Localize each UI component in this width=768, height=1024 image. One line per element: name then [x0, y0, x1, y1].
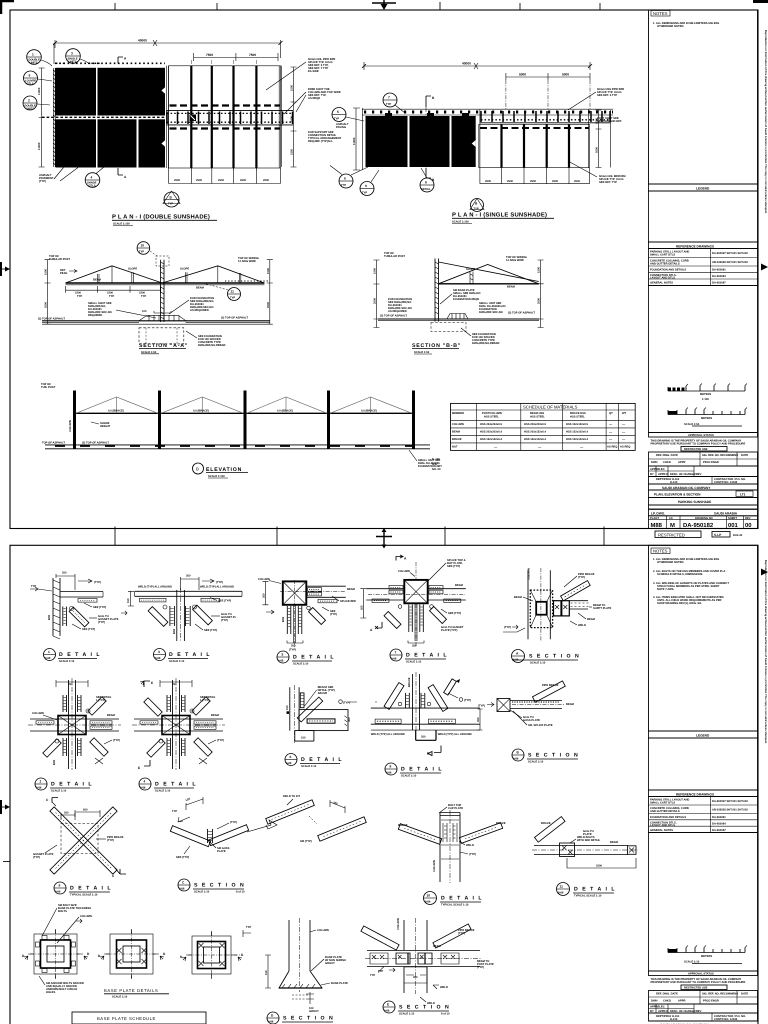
- svg-text:PROPRIETARY USE PURSUANT TO CO: PROPRIETARY USE PURSUANT TO COMPANY POLI…: [651, 981, 746, 984]
- svg-text:SCALE 1:10: SCALE 1:10: [401, 774, 417, 777]
- svg-text:BEAM: BEAM: [507, 286, 516, 289]
- plan1 dotted line above block: [55, 62, 165, 64]
- svg-text:SIG. REF. NO. RECOMMEND: SIG. REF. NO. RECOMMEND: [702, 993, 738, 996]
- svg-text:M: M: [670, 522, 675, 529]
- svg-text:COLUMN: COLUMN: [452, 423, 464, 426]
- svg-text:8: 8: [425, 181, 427, 185]
- reference drawings table: [649, 249, 758, 286]
- svg-text:HSS 152x102x6.4: HSS 152x102x6.4: [566, 431, 588, 434]
- secA truss top chords: [66, 266, 265, 283]
- plan2 callout circle 7: [383, 93, 405, 113]
- dept row: [649, 477, 758, 485]
- svg-text:DTLS: DTLS: [89, 184, 96, 187]
- svg-text:S E C T I O N: S E C T I O N: [283, 1016, 334, 1022]
- svg-text:REV: REV: [745, 517, 751, 520]
- detail 1 leader texts: [72, 603, 119, 631]
- svg-text:COLUMN: COLUMN: [69, 420, 72, 432]
- detail 8 drawing: [371, 672, 483, 756]
- elev column rotated label: [69, 420, 72, 432]
- section A label: [512, 650, 581, 665]
- plan1 circle3 dotted leader: [56, 62, 101, 64]
- svg-text:TYP: TYP: [334, 118, 339, 121]
- svg-text:ABOVE: ABOVE: [318, 692, 328, 695]
- svg-text:PROJ ENGR: PROJ ENGR: [703, 1000, 719, 1003]
- elev beam line: [73, 412, 415, 414]
- svg-text:SMALL CART DTLS: SMALL CART DTLS: [650, 253, 675, 256]
- sheet 2 border: [10, 545, 758, 1024]
- svg-text:HSS 203x152x6.4: HSS 203x152x6.4: [524, 431, 546, 434]
- svg-text:D E T A I L: D E T A I L: [169, 652, 211, 658]
- svg-text:(TYP): (TYP): [458, 932, 465, 935]
- section E label: [383, 1001, 450, 1015]
- svg-text:BASE PLATE SCHEDULE: BASE PLATE SCHEDULE: [97, 1016, 156, 1021]
- svg-text:CONTR NO. 12345: CONTR NO. 12345: [714, 481, 738, 484]
- registration mark top-center: [372, 0, 396, 10]
- svg-text:D E T A I L: D E T A I L: [59, 652, 101, 658]
- svg-text:SEAM: SEAM: [433, 945, 442, 948]
- svg-text:SIG. REF. NO. RECOMMEND: SIG. REF. NO. RECOMMEND: [702, 454, 738, 457]
- svg-text:WELD: WELD: [440, 986, 448, 989]
- plan1 callout circle 2: [23, 96, 50, 110]
- by/appr rows: [649, 466, 758, 477]
- svg-text:REF. DWG. DATE: REF. DWG. DATE: [656, 993, 678, 996]
- svg-text:COLUMN: COLUMN: [317, 929, 329, 932]
- secB ground line: [378, 319, 539, 321]
- detail 3 label: [154, 649, 212, 663]
- svg-text:COLUMN: COLUMN: [433, 860, 436, 872]
- svg-text:AS REQD: AS REQD: [308, 97, 320, 100]
- elev top-of-column label: [41, 383, 56, 389]
- detail 6 drawing: [286, 685, 377, 743]
- secA callout circle 10: [137, 242, 169, 266]
- svg-text:8-88: 8-88: [286, 762, 292, 765]
- svg-text:GROUT: GROUT: [309, 1010, 319, 1013]
- svg-text:2500: 2500: [45, 302, 48, 308]
- top edge ticks: [115, 2, 600, 10]
- svg-text:SAUDI ARABIAN OIL COMPANY: SAUDI ARABIAN OIL COMPANY: [662, 486, 711, 490]
- secA slope labels: [93, 268, 205, 290]
- svg-text:PROJ ENGR: PROJ ENGR: [703, 461, 719, 464]
- svg-text:GROUT: GROUT: [325, 962, 335, 965]
- svg-text:HOLES: HOLES: [46, 991, 55, 994]
- svg-text:HSS STEEL: HSS STEEL: [530, 416, 545, 419]
- svg-text:11: 11: [560, 885, 564, 889]
- svg-text:6: 6: [290, 755, 292, 759]
- secA pedestal: [139, 310, 186, 321]
- detail 4 label: [139, 778, 197, 792]
- svg-text:APPROVAL STATUS: APPROVAL STATUS: [688, 434, 714, 437]
- svg-text:7500: 7500: [249, 53, 256, 57]
- approvals band: [649, 433, 758, 438]
- svg-text:RESTRICTED USE: RESTRICTED USE: [684, 448, 708, 451]
- plan1 callout circle 3: [66, 49, 89, 64]
- svg-text:2: 2: [40, 780, 42, 784]
- svg-text:5000: 5000: [562, 73, 569, 77]
- svg-text:PARKING SUNSHADE: PARKING SUNSHADE: [678, 500, 711, 504]
- svg-text:SCALE 1:10: SCALE 1:10: [169, 660, 185, 663]
- scale bar 1: [668, 384, 747, 402]
- svg-text:TUBULAR POST: TUBULAR POST: [49, 258, 70, 261]
- svg-text:DATE: DATE: [741, 993, 748, 996]
- plan1 section flag A top: [118, 57, 127, 64]
- plan2 top beam dotted row: [362, 109, 613, 115]
- svg-text:EA SIDE: EA SIDE: [308, 70, 319, 73]
- svg-text:250: 250: [186, 575, 191, 578]
- detail 3 leader texts: [173, 598, 237, 635]
- svg-text:00: 00: [745, 522, 752, 529]
- plan1 callout circle 1: [27, 50, 52, 66]
- svg-text:(TYP): (TYP): [469, 853, 476, 856]
- notes text s2: [653, 558, 729, 605]
- plan1 bottom dims 2500: [169, 168, 281, 184]
- svg-text:BY: BY: [650, 473, 654, 476]
- svg-text:1 (TYP): 1 (TYP): [200, 699, 209, 702]
- signature rows s2: [649, 991, 758, 1005]
- svg-text:2500: 2500: [530, 180, 536, 183]
- svg-text:1500: 1500: [267, 268, 270, 274]
- svg-text:SHOP DRAWING REV(1), DWG. SH.: SHOP DRAWING REV(1), DWG. SH.: [657, 602, 702, 605]
- svg-text:SPLICE BPE: SPLICE BPE: [340, 600, 356, 603]
- elev eave height label: [91, 422, 111, 428]
- plan1 left dim line: [38, 43, 54, 167]
- svg-text:4: 4: [91, 176, 93, 180]
- svg-text:AB-036558 SHT.001 SHT.002: AB-036558 SHT.001 SHT.002: [712, 261, 748, 264]
- svg-text:GUSS PLATE: GUSS PLATE: [523, 719, 540, 722]
- svg-text:350: 350: [263, 593, 266, 598]
- plan1 left post column strip: [53, 68, 55, 167]
- svg-text:BEAM: BEAM: [514, 596, 523, 599]
- svg-text:(TYP): (TYP): [230, 821, 237, 824]
- svg-text:(TYP): (TYP): [216, 581, 223, 584]
- detail 3 drawing: [121, 575, 242, 643]
- svg-text:9: 9: [59, 884, 61, 888]
- svg-text:SEE DET. TYP: SEE DET. TYP: [599, 181, 617, 184]
- svg-text:3: 3: [71, 52, 73, 56]
- svg-text:OTHERWISE NOTED.: OTHERWISE NOTED.: [657, 561, 684, 564]
- section B label: [512, 749, 579, 763]
- svg-text:2200: 2200: [139, 292, 145, 295]
- svg-text:PROPRIETARY USE PURSUANT TO CO: PROPRIETARY USE PURSUANT TO COMPANY POLI…: [651, 443, 746, 446]
- svg-text:DA-950182: DA-950182: [683, 522, 714, 529]
- svg-text:UNITS: UNITS: [69, 60, 77, 63]
- plan2 top dimension line 40000: [362, 62, 592, 71]
- svg-text:D E T A I L: D E T A I L: [70, 886, 112, 892]
- svg-text:SCALE 1:50: SCALE 1:50: [684, 423, 700, 426]
- secA asphalt labels: [38, 317, 248, 321]
- svg-text:11000: 11000: [353, 137, 356, 145]
- svg-text:8-88: 8-88: [425, 901, 431, 904]
- svg-text:2: 2: [28, 99, 30, 103]
- plan1 right annotation text 2: [284, 88, 341, 114]
- svg-text:SLOPE: SLOPE: [466, 268, 475, 271]
- svg-text:300: 300: [348, 717, 351, 722]
- svg-text:2500: 2500: [507, 180, 513, 183]
- svg-text:SEE (TYP): SEE (TYP): [447, 565, 460, 568]
- plan1 black panel lower row: [56, 119, 166, 167]
- svg-text:TYP: TYP: [246, 926, 251, 929]
- svg-text:1500: 1500: [291, 85, 294, 91]
- right edge arrow sheet1: [761, 264, 768, 271]
- svg-text:(TYP): (TYP): [39, 180, 46, 183]
- secA left text block: [88, 302, 156, 318]
- plan2 title: [452, 212, 554, 224]
- svg-text:AS REQ: AS REQ: [607, 446, 617, 449]
- svg-text:2500: 2500: [538, 298, 541, 304]
- svg-text:TYP: TYP: [172, 810, 177, 813]
- svg-text:(2) TOP OF ASPHALT: (2) TOP OF ASPHALT: [38, 317, 65, 320]
- svg-text:OTHERWISE NOTED.: OTHERWISE NOTED.: [657, 25, 684, 28]
- svg-text:BOLTS: BOLTS: [58, 910, 67, 913]
- svg-text:12 AWG WIRE: 12 AWG WIRE: [238, 260, 256, 263]
- svg-text:11000: 11000: [38, 142, 41, 150]
- section E drawing: [361, 918, 494, 1005]
- svg-text:001: 001: [728, 522, 739, 529]
- svg-text:APPR.D: APPR.D: [658, 473, 668, 476]
- svg-text:1500: 1500: [291, 116, 294, 122]
- svg-text:4.0 (BRACE): 4.0 (BRACE): [193, 410, 209, 413]
- svg-text:DA-950084: DA-950084: [712, 823, 726, 826]
- svg-text:5: 5: [282, 653, 284, 657]
- svg-text:P L A N - I (DOUBLE SUNSHADE): P L A N - I (DOUBLE SUNSHADE): [112, 214, 210, 221]
- plan1 callout circle 4: [85, 167, 104, 187]
- approvals band s2: [649, 971, 758, 976]
- svg-text:APPROVAL STATUS: APPROVAL STATUS: [688, 973, 714, 976]
- secB baseplate: [447, 314, 468, 320]
- svg-text:10: 10: [427, 894, 431, 898]
- svg-text:PLAN, ELEVATION & SECTION: PLAN, ELEVATION & SECTION: [654, 493, 701, 497]
- secB asphalt labels: [380, 312, 535, 318]
- svg-text:BRACE: BRACE: [541, 822, 551, 825]
- svg-text:PAVING: PAVING: [336, 126, 346, 129]
- secB beam label: [507, 286, 516, 289]
- svg-text:40000: 40000: [138, 39, 147, 43]
- plan1 callout circle 9: [24, 71, 53, 85]
- secB below-foundation text: [461, 328, 500, 345]
- svg-text:SLOPE: SLOPE: [128, 268, 137, 271]
- secA below-foundation text: [186, 331, 226, 347]
- svg-text:METERS: METERS: [701, 955, 712, 958]
- section D label: [267, 1012, 334, 1024]
- section B drawing: [478, 681, 575, 727]
- secB right dim line: [538, 260, 544, 328]
- svg-text:LEGEND: LEGEND: [696, 186, 710, 190]
- notes label: [651, 11, 670, 17]
- svg-text:SCALE 1:10: SCALE 1:10: [112, 996, 128, 999]
- secB right mid text: [479, 302, 506, 314]
- svg-text:SEE (TYP): SEE (TYP): [448, 612, 461, 615]
- plan1 left small texts: [39, 168, 78, 184]
- base plate schedule box: [72, 1012, 206, 1024]
- svg-text:8-88: 8-88: [140, 787, 146, 790]
- secA ground line: [42, 321, 270, 324]
- drawing title row: [649, 490, 758, 498]
- plan1 callout circle 5 right: [332, 108, 364, 122]
- svg-text:GENERAL NOTES: GENERAL NOTES: [650, 282, 673, 285]
- plan2 section circle B bottom center: [470, 199, 484, 212]
- svg-text:COLUMN: COLUMN: [528, 568, 531, 580]
- plan1 right edge double line of covered area: [167, 66, 169, 168]
- svg-text:BEAM: BEAM: [455, 584, 464, 587]
- sheet 1 border: [10, 10, 758, 529]
- svg-text:2500: 2500: [552, 180, 558, 183]
- secB post: [435, 259, 439, 322]
- svg-text:NOTE 7 AWS.: NOTE 7 AWS.: [657, 588, 674, 591]
- svg-text:150: 150: [265, 970, 268, 975]
- svg-text:(TYP): (TYP): [477, 966, 484, 969]
- svg-text:PIPE BRACE: PIPE BRACE: [542, 684, 559, 687]
- secA right top label: [238, 257, 259, 263]
- ref drawings header s2: [649, 790, 758, 797]
- svg-text:WITH SEE DETAIL: WITH SEE DETAIL: [577, 839, 601, 842]
- plan1 section flag A bottom: [118, 168, 127, 179]
- detail 10 label: [424, 892, 484, 907]
- secA purlin dims below beam: [66, 286, 161, 298]
- svg-text:LT1: LT1: [740, 493, 746, 497]
- svg-text:SCALE 1:50: SCALE 1:50: [141, 351, 157, 354]
- svg-text:7: 7: [395, 651, 397, 655]
- svg-text:TYPICAL SCALE 1:10: TYPICAL SCALE 1:10: [70, 893, 98, 896]
- svg-text:250: 250: [291, 645, 296, 648]
- secB top-of-post label: [384, 252, 405, 258]
- svg-text:WELD: WELD: [578, 624, 586, 627]
- plan2 right annotation text 2: [597, 117, 622, 123]
- svg-text:MEMBER: MEMBER: [452, 412, 464, 415]
- secB left dim line: [374, 260, 380, 328]
- svg-text:TUBULAR POST: TUBULAR POST: [384, 255, 405, 258]
- plan2 left small text: [336, 123, 349, 129]
- plan2 right open frame outline: [479, 110, 590, 169]
- left edge registration arrow sheet1: [0, 262, 10, 276]
- svg-text:8: 8: [390, 765, 392, 769]
- svg-text:M88: M88: [651, 522, 663, 529]
- svg-text:S-LP: S-LP: [714, 533, 722, 537]
- svg-text:HSS 203x203x6.4: HSS 203x203x6.4: [480, 431, 502, 434]
- svg-text:1 (TYP): 1 (TYP): [96, 699, 105, 702]
- ref drawings table s2: [649, 797, 758, 833]
- number row: [649, 516, 758, 529]
- svg-text:350: 350: [477, 717, 480, 722]
- svg-text:2500: 2500: [267, 302, 270, 308]
- plan1 black panel upper row: [56, 68, 166, 116]
- plan2 black panel block: [366, 116, 476, 167]
- secB foundation dashed: [431, 323, 466, 332]
- svg-text:FIELD TO FIT: FIELD TO FIT: [283, 795, 300, 798]
- svg-text:250: 250: [68, 683, 73, 686]
- sheet 1 bottom fold ticks: [115, 527, 604, 546]
- svg-text:100: 100: [142, 310, 147, 313]
- svg-text:AS REQUIRED: AS REQUIRED: [190, 309, 209, 312]
- svg-text:HSS 152x102x6.4: HSS 152x102x6.4: [524, 438, 546, 441]
- svg-text:2500: 2500: [485, 180, 491, 183]
- svg-text:2200: 2200: [75, 292, 81, 295]
- svg-text:5: 5: [337, 110, 339, 114]
- svg-text:GENERAL NOTES: GENERAL NOTES: [650, 829, 673, 832]
- svg-text:SCALE 1:10: SCALE 1:10: [293, 662, 309, 665]
- detail 9 drawing (X brace): [33, 798, 126, 879]
- svg-text:(2) TOP OF ASPHALT: (2) TOP OF ASPHALT: [380, 315, 407, 318]
- svg-text:DWG,REF SEC,NO: DWG,REF SEC,NO: [479, 311, 503, 314]
- elev title: [193, 463, 249, 478]
- svg-text:DWG,REF,NO,REBAR: DWG,REF,NO,REBAR: [472, 342, 500, 345]
- plan2 section flag B top: [426, 96, 435, 168]
- reference drawings header: [649, 242, 758, 249]
- svg-text:CHKD: CHKD: [663, 461, 671, 464]
- svg-text:NO. 60: NO. 60: [432, 468, 441, 471]
- svg-text:SCALE 1:10: SCALE 1:10: [59, 660, 75, 663]
- svg-text:DRAWING NO: DRAWING NO: [695, 517, 713, 520]
- svg-text:COLUMN: COLUMN: [398, 570, 410, 573]
- svg-text:8-88: 8-88: [278, 660, 284, 663]
- svg-text:UNITS: UNITS: [30, 61, 38, 64]
- empty area + outer column lines sheet1: [649, 286, 758, 433]
- svg-text:REF. DWG. DATE: REF. DWG. DATE: [656, 454, 678, 457]
- svg-text:B/W: B/W: [48, 614, 51, 620]
- svg-text:HSS 152x152x6.4: HSS 152x152x6.4: [480, 438, 502, 441]
- svg-text:S E C T I O N: S E C T I O N: [528, 753, 579, 759]
- svg-text:SECTION AND DET.: SECTION AND DET.: [597, 120, 622, 123]
- svg-text:(TYP): (TYP): [33, 856, 40, 859]
- svg-text:TYP: TYP: [109, 295, 114, 298]
- svg-text:8-88: 8-88: [268, 1021, 274, 1024]
- legend empty s2: [649, 738, 758, 790]
- svg-text:9: 9: [365, 184, 367, 188]
- svg-text:SM (TYP): SM (TYP): [300, 840, 312, 843]
- svg-text:DA-950087: DA-950087: [712, 282, 726, 285]
- svg-text:SEE (TYP): SEE (TYP): [218, 600, 231, 603]
- svg-text:WELD (TYP) ALL AROUND: WELD (TYP) ALL AROUND: [438, 733, 472, 736]
- svg-text:TYP: TYP: [370, 974, 375, 977]
- plan2 black block connection squares on beam: [385, 113, 469, 118]
- svg-text:250: 250: [62, 572, 67, 575]
- svg-text:BRACE: BRACE: [452, 438, 462, 441]
- svg-text:REQ,REF (TYP)ALL: REQ,REF (TYP)ALL: [308, 140, 333, 143]
- notes label s2: [651, 548, 670, 554]
- svg-text:AND GUTTER DETAILS: AND GUTTER DETAILS: [650, 263, 680, 266]
- scale bar s2: [668, 946, 747, 959]
- svg-text:N. 100: N. 100: [432, 458, 440, 461]
- svg-text:ELEC: ELEC: [658, 468, 665, 471]
- svg-text:SMALL CART DTLS: SMALL CART DTLS: [650, 801, 675, 804]
- svg-text:SCALE 1:10: SCALE 1:10: [406, 660, 422, 663]
- svg-text:12 AWG WIRE: 12 AWG WIRE: [506, 259, 524, 262]
- legend band: [649, 184, 758, 191]
- svg-text:SCALE 1:50: SCALE 1:50: [414, 351, 430, 354]
- restricted stamp between sheets: [655, 531, 743, 538]
- svg-text:WELD (TYP) ALL AROUND: WELD (TYP) ALL AROUND: [138, 586, 172, 589]
- svg-text:TYP: TYP: [77, 295, 82, 298]
- detail 9 label: [54, 882, 112, 896]
- svg-text:PLANT: PLANT: [650, 517, 659, 520]
- svg-text:TYP: TYP: [341, 184, 346, 187]
- svg-text:BY: BY: [650, 1010, 654, 1013]
- svg-text:4.0 (BRACE): 4.0 (BRACE): [108, 410, 124, 413]
- svg-text:H-310: H-310: [670, 481, 678, 484]
- svg-text:BEAM: BEAM: [211, 714, 220, 717]
- svg-text:DA2-40: DA2-40: [733, 534, 743, 537]
- svg-text:DESC. OF CHANGE/REV: DESC. OF CHANGE/REV: [670, 473, 702, 476]
- svg-text:D E T A I L: D E T A I L: [441, 896, 483, 902]
- svg-text:1:100: 1:100: [702, 398, 709, 401]
- plan1 central girder band: [167, 106, 294, 129]
- svg-text:SHEET: SHEET: [728, 517, 737, 520]
- svg-text:D E T A I L: D E T A I L: [155, 782, 197, 788]
- svg-text:8 of 10: 8 of 10: [236, 890, 245, 893]
- svg-text:2500: 2500: [196, 179, 202, 182]
- svg-text:B: B: [196, 467, 199, 472]
- svg-text:SAUDI ARABIA: SAUDI ARABIA: [714, 512, 738, 516]
- svg-text:LD: LD: [669, 517, 673, 520]
- svg-text:D E T A I L: D E T A I L: [401, 767, 443, 773]
